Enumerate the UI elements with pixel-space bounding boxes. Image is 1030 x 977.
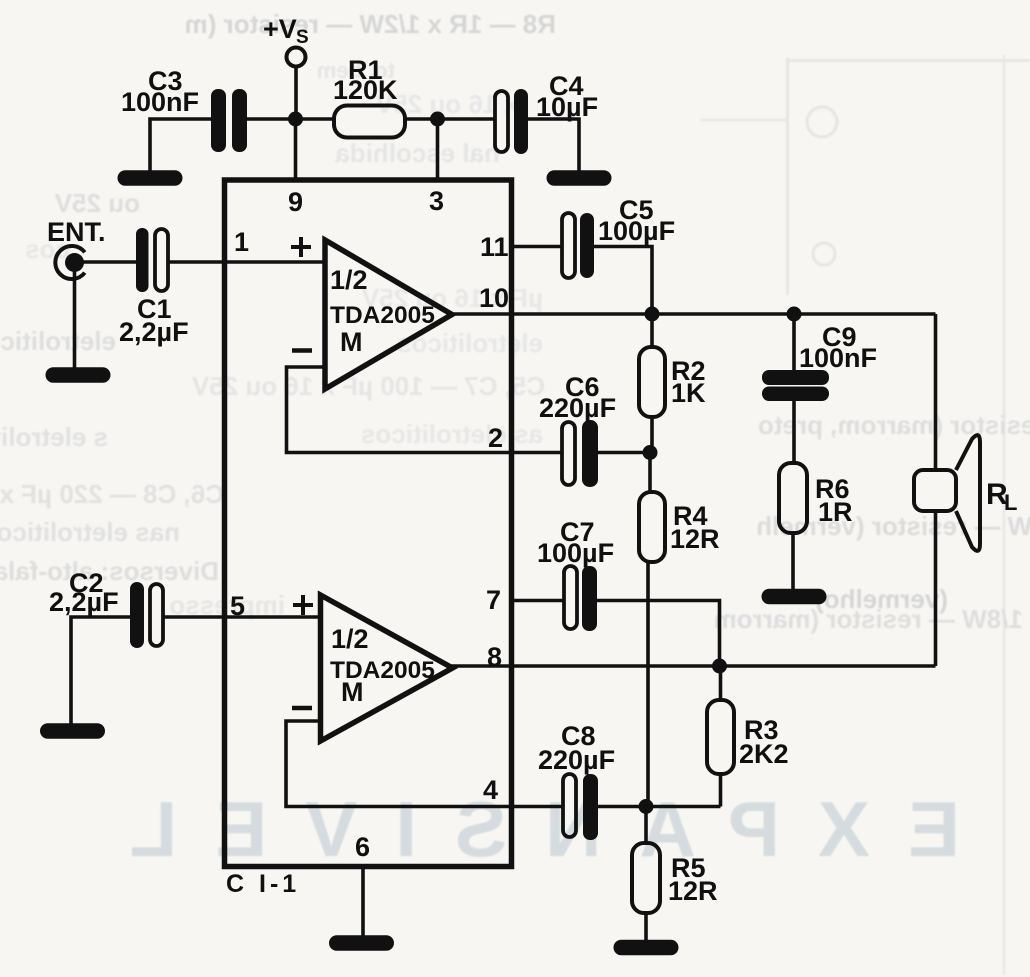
svg-text:1/2: 1/2 bbox=[331, 624, 369, 654]
label RL speaker bbox=[986, 478, 1017, 515]
resistor R1 body bbox=[334, 106, 405, 138]
IC U1 body (CI-1 TDA2005) bbox=[225, 180, 512, 867]
label R5 value bbox=[668, 853, 718, 906]
label R1 value bbox=[333, 55, 398, 105]
svg-text:eletroliticos: eletroliticos bbox=[0, 326, 116, 356]
op-amp1 designator 1/2 TDA2005 M bbox=[330, 265, 435, 357]
resistor R6 body bbox=[779, 463, 807, 590]
svg-text:C6, C8 — 220 µF x 16 ou 25V: C6, C8 — 220 µF x 16 ou 25V bbox=[0, 479, 224, 509]
svg-text:220µF: 220µF bbox=[539, 393, 616, 423]
pin label 6 bbox=[355, 832, 370, 862]
label C5 value bbox=[598, 195, 675, 246]
svg-text:100nF: 100nF bbox=[799, 343, 877, 373]
svg-text:2: 2 bbox=[488, 423, 503, 453]
wire op-amp2 feedback to pin4 bbox=[286, 721, 564, 807]
svg-text:3: 3 bbox=[429, 186, 444, 216]
pin label 4 bbox=[483, 775, 498, 805]
label C6 value bbox=[539, 372, 616, 423]
node junction C8/R4/R5/R3 bbox=[639, 799, 654, 814]
svg-text:1: 1 bbox=[234, 227, 249, 257]
svg-text:1R: 1R bbox=[818, 497, 853, 527]
svg-text:1/2: 1/2 bbox=[330, 265, 368, 295]
label C3 value bbox=[121, 66, 199, 117]
svg-text:11: 11 bbox=[480, 232, 509, 262]
label +Vs bbox=[263, 14, 309, 48]
svg-text:100µF: 100µF bbox=[537, 538, 614, 568]
label C7 value bbox=[537, 517, 614, 568]
svg-text:7: 7 bbox=[486, 585, 501, 615]
label R3 value bbox=[739, 715, 789, 769]
pin label 9 bbox=[288, 187, 303, 217]
wire C6 right lead bbox=[598, 451, 650, 455]
capacitor C9 plates bbox=[762, 370, 829, 401]
wire pin 3 drop bbox=[436, 119, 440, 180]
svg-text:2R x 1/8W — resistor (marrom: 2R x 1/8W — resistor (marrom bbox=[714, 604, 1030, 634]
wire C2 left lead bbox=[71, 617, 131, 724]
svg-text:2K2: 2K2 bbox=[739, 739, 789, 769]
pin label 2 bbox=[488, 423, 503, 453]
wire C8 to R5 node bbox=[598, 805, 646, 809]
label C2 value bbox=[49, 568, 119, 617]
svg-text:nal escolhida: nal escolhida bbox=[335, 138, 500, 168]
wire C7 to R3 node bbox=[597, 601, 720, 667]
wire pin 9 drop bbox=[294, 119, 298, 180]
svg-text:C I-1: C I-1 bbox=[226, 870, 300, 898]
svg-text:M: M bbox=[340, 327, 363, 357]
wire C9 leads bbox=[792, 314, 796, 463]
wire op-amp1 feedback to pin2 bbox=[287, 367, 563, 453]
svg-text:9: 9 bbox=[288, 187, 303, 217]
capacitor C7 plates bbox=[564, 566, 597, 631]
wire C2 to op-amp2 + input bbox=[163, 615, 321, 619]
minus sign op-amp1 bbox=[292, 348, 312, 353]
svg-text:Diversos: alto-falante, fios,: Diversos: alto-falante, fios, bbox=[0, 556, 219, 586]
wire jack to C1 bbox=[80, 260, 137, 264]
wire C4 right lead bbox=[528, 119, 579, 171]
svg-text:+V: +V bbox=[263, 14, 297, 44]
ground G1 (C3) bbox=[118, 170, 183, 186]
pin label 10 bbox=[479, 283, 509, 313]
node junction at pin3 bbox=[430, 112, 445, 127]
wire top rail left (C3 to R1) bbox=[247, 117, 334, 121]
svg-text:ou 25V: ou 25V bbox=[54, 188, 140, 218]
plus sign op-amp2 bbox=[293, 595, 313, 615]
wire pin 8 output row bbox=[449, 664, 936, 668]
label C1 value bbox=[119, 294, 189, 347]
svg-text:S: S bbox=[296, 27, 309, 48]
wire pin 10 output row bbox=[448, 312, 936, 316]
capacitor C3 plates bbox=[211, 89, 247, 152]
ground G5 (R6) bbox=[762, 589, 827, 605]
label C4 value bbox=[536, 71, 598, 122]
wire jack to ground bbox=[73, 268, 77, 368]
ghost reverse-page figure lines bbox=[700, 55, 1030, 975]
wire node to R3 bottom bbox=[646, 805, 721, 809]
svg-text:C5, C7 — 100 µF x 16 ou 25V: C5, C7 — 100 µF x 16 ou 25V bbox=[191, 371, 545, 401]
svg-text:2,2µF: 2,2µF bbox=[119, 317, 189, 347]
input jack ENT. bbox=[55, 246, 84, 279]
pin label 1 bbox=[234, 227, 249, 257]
node junction C9 on output bbox=[787, 307, 802, 322]
plus sign op-amp1 bbox=[291, 237, 311, 257]
wire C3 left lead bbox=[150, 119, 212, 172]
pin label 7 bbox=[486, 585, 501, 615]
svg-text:10µF: 10µF bbox=[536, 92, 598, 122]
svg-text:R8 — 1R x 1/2W — resistor (m: R8 — 1R x 1/2W — resistor (m bbox=[185, 9, 556, 39]
svg-text:nas eletroliticos: nas eletroliticos bbox=[0, 517, 180, 547]
label R4 value bbox=[670, 501, 720, 554]
svg-text:ENT.: ENT. bbox=[47, 217, 106, 247]
svg-text:10: 10 bbox=[479, 283, 509, 313]
label C9 value bbox=[799, 322, 877, 373]
svg-text:12R: 12R bbox=[670, 524, 720, 554]
resistor R5 body bbox=[632, 807, 660, 942]
ground G7 (R5) bbox=[614, 940, 679, 956]
svg-text:L: L bbox=[1004, 490, 1017, 515]
svg-text:220µF: 220µF bbox=[538, 745, 615, 775]
wire C1 to op-amp + input bbox=[168, 260, 325, 264]
pin label 5 bbox=[230, 591, 245, 621]
svg-text:as eletroliticos: as eletroliticos bbox=[361, 419, 543, 449]
svg-text:100nF: 100nF bbox=[121, 87, 199, 117]
svg-text:12R: 12R bbox=[668, 876, 718, 906]
node junction C5/R2 on output bbox=[645, 307, 660, 322]
IC designator CI-1 bbox=[226, 870, 300, 898]
label ENT. bbox=[47, 217, 106, 247]
resistor R2 body bbox=[639, 314, 665, 453]
svg-text:8W — resistor (marrom, preto: 8W — resistor (marrom, preto bbox=[758, 410, 1030, 440]
svg-text:M: M bbox=[341, 677, 364, 707]
svg-text:8: 8 bbox=[487, 642, 502, 672]
wire pin 6 to ground bbox=[361, 866, 365, 936]
label C8 value bbox=[538, 721, 615, 775]
label R6 value bbox=[815, 474, 853, 527]
resistor R4 body bbox=[639, 453, 665, 807]
capacitor C1 plates bbox=[136, 228, 168, 292]
svg-text:5: 5 bbox=[230, 591, 245, 621]
ground G6 (pin 6) bbox=[329, 935, 394, 951]
op-amp U1b triangle bbox=[321, 595, 453, 741]
label R2 value bbox=[671, 356, 706, 408]
capacitor C5 plates bbox=[562, 213, 594, 278]
minus sign op-amp2 bbox=[292, 706, 312, 711]
wire pin 7 to C7 bbox=[512, 599, 566, 603]
pin label 11 bbox=[480, 232, 509, 262]
node junction R2/C6/R4 bbox=[643, 445, 658, 460]
svg-text:s eletroliticos: s eletroliticos bbox=[0, 422, 108, 452]
svg-text:120K: 120K bbox=[333, 75, 398, 105]
resistor R3 body bbox=[707, 666, 734, 807]
pin label 8 bbox=[487, 642, 502, 672]
capacitor C6 plates bbox=[562, 420, 598, 487]
wire right column to speaker bbox=[934, 314, 938, 666]
speaker RL bbox=[914, 435, 980, 551]
supply terminal +Vs bbox=[287, 48, 306, 120]
svg-text:1K: 1K bbox=[671, 378, 706, 408]
wire top rail mid (R1 to C4) bbox=[404, 117, 496, 121]
ground G2 (C4) bbox=[547, 170, 612, 186]
svg-text:x 1/8W — resistor (vermelh: x 1/8W — resistor (vermelh bbox=[756, 511, 1030, 541]
node junction pin8/R3 bbox=[712, 659, 727, 674]
node junction at pin9/Vs bbox=[288, 112, 303, 127]
capacitor C4 plates bbox=[495, 89, 528, 154]
ghost mirrored text lines (page bleed-through) bbox=[0, 9, 1030, 634]
ground G3 (input) bbox=[46, 367, 111, 383]
wire C5 to output node bbox=[594, 247, 652, 315]
svg-text:TDA2005: TDA2005 bbox=[330, 302, 435, 329]
op-amp U1a triangle bbox=[325, 240, 452, 389]
svg-text:2,2µF: 2,2µF bbox=[49, 587, 119, 617]
capacitor C2 plates bbox=[130, 582, 163, 648]
svg-text:6: 6 bbox=[355, 832, 370, 862]
svg-text:100µF: 100µF bbox=[598, 216, 675, 246]
wire pin 11 to C5 bbox=[512, 245, 564, 249]
svg-text:4: 4 bbox=[483, 775, 498, 805]
ground G4 (C2) bbox=[40, 723, 105, 739]
pin label 3 bbox=[429, 186, 444, 216]
op-amp2 designator 1/2 TDA2005 M bbox=[330, 624, 435, 707]
capacitor C8 plates bbox=[563, 774, 598, 840]
